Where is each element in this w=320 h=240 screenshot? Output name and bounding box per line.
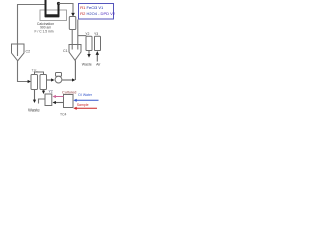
DI water line [76,99,99,101]
junction dot [57,2,60,5]
black line cultured to T2 [55,102,64,104]
TF column right [40,75,47,90]
wire V1 to C1 [71,30,73,50]
cyclone C2 [12,44,25,61]
wire C2 to TF [18,61,29,82]
air line up arrow [96,55,98,62]
arrow into V1 [71,13,75,17]
svg-text:R1 FeCl3 V1: R1 FeCl3 V1 [80,5,104,10]
cyclone C1 [69,45,81,61]
TF bridge [35,72,44,75]
waste line down [88,51,90,55]
rotameter Y2 [86,36,92,50]
svg-text:F / C 1.5 mm: F / C 1.5 mm [34,30,53,34]
pink line cultured to T2 [55,96,64,98]
cell T2 [45,94,52,106]
wire branch to Y2 rotameter [78,35,87,37]
TF column left [31,75,38,90]
pump wire from TF [47,79,52,81]
U-tube [46,0,59,16]
legend box R1/R2 [79,4,114,20]
C1 bottom line [74,60,76,80]
svg-text:Waste: Waste [28,108,40,113]
wire legend to C1 [77,20,79,50]
svg-text:Y3: Y3 [94,32,98,36]
wire left vertical into C2 [17,5,19,57]
svg-text:Y2: Y2 [85,32,89,36]
svg-text:C1: C1 [63,49,68,53]
svg-text:Sample: Sample [77,103,89,107]
sample line [76,107,98,109]
drain L from T2 [39,99,45,104]
svg-text:Y2: Y2 [49,90,53,94]
cell cultured [64,95,74,108]
pump outlet wire [62,79,72,81]
svg-text:R2 H2O4 - DPD V2: R2 H2O4 - DPD V2 [80,11,115,16]
svg-text:TC4: TC4 [60,112,67,116]
svg-text:C2: C2 [26,49,31,53]
wire top horizontal left [17,4,46,6]
rotameter V1 [69,17,76,30]
pump [56,73,62,77]
svg-text:DI Water: DI Water [78,93,93,97]
svg-text:Waste: Waste [82,62,92,66]
line right column to T2 cell [43,90,45,92]
furnace box [40,10,67,21]
rotameter Y3 [95,36,101,50]
waste line from left column [34,90,36,101]
wire from U-tube to V1 [59,4,74,14]
